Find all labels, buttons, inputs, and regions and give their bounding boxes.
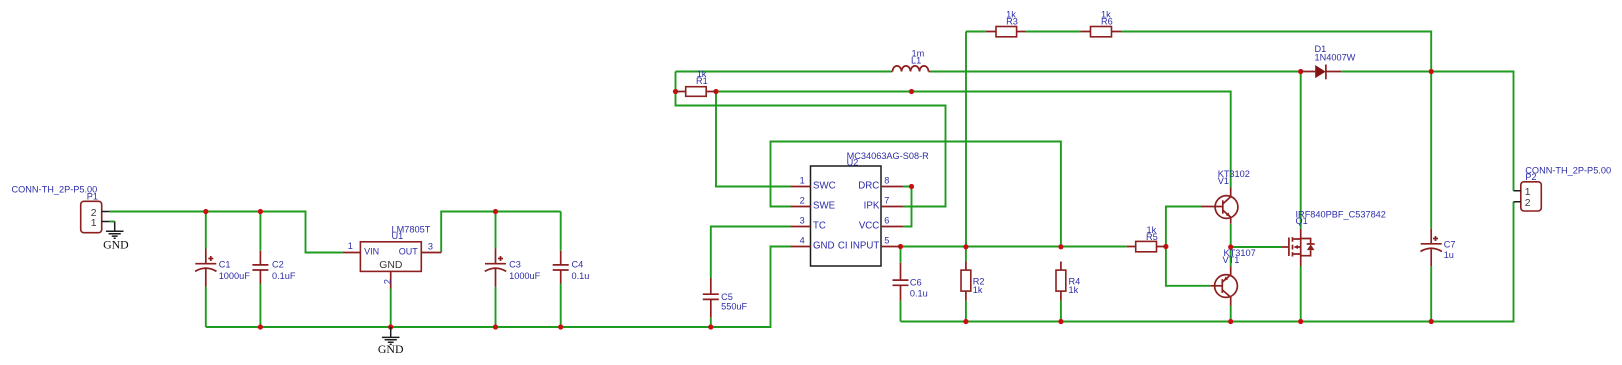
svg-text:P2: P2 (1525, 172, 1536, 182)
capacitor C3 (485, 249, 541, 287)
svg-text:VIN: VIN (364, 247, 379, 257)
svg-text:MC34063AG-S08-R: MC34063AG-S08-R (847, 151, 930, 161)
svg-text:VCC: VCC (859, 221, 879, 232)
svg-text:SWE: SWE (813, 201, 836, 212)
node C5 bottom (708, 324, 713, 329)
wire Q1 source down (1300, 266, 1302, 322)
svg-text:GND: GND (813, 241, 835, 252)
wire R4 bottom (1060, 301, 1062, 322)
wire R3 to R6 (1026, 31, 1081, 33)
node C3 top (493, 209, 498, 214)
svg-text:L1: L1 (911, 56, 921, 66)
node DRC pin (909, 184, 914, 189)
svg-text:3: 3 (800, 216, 805, 226)
svg-text:C3: C3 (509, 260, 521, 270)
svg-text:CONN-TH_2P-P5.00: CONN-TH_2P-P5.00 (1525, 166, 1611, 176)
wire C5 bottom (710, 318, 712, 327)
svg-text:4: 4 (800, 236, 805, 246)
wire C2 bottom drop (259, 284, 261, 328)
svg-text:0.1uF: 0.1uF (272, 271, 296, 281)
resistor R1 (676, 69, 717, 96)
svg-text:R1: R1 (696, 76, 708, 86)
capacitor C6 (893, 263, 928, 301)
resistor R2 (961, 262, 985, 301)
node C2 top (258, 209, 263, 214)
wire SWE loop to R4 (771, 142, 1061, 248)
svg-text:1: 1 (91, 218, 97, 229)
node C7 bottom (1429, 319, 1434, 324)
wire C1 top drop (205, 212, 207, 249)
wire C4 bottom drop (560, 284, 562, 328)
capacitor C7 (1421, 229, 1456, 267)
regulator U1 (343, 224, 441, 288)
ground symbol P1 (103, 222, 129, 252)
node D1 anode (1298, 69, 1303, 74)
wire DRC VCC link (903, 187, 912, 227)
svg-text:1k: 1k (973, 285, 983, 295)
svg-text:IRF840PBF_C537842: IRF840PBF_C537842 (1296, 210, 1386, 220)
node C4 bottom (558, 324, 563, 329)
svg-text:R5: R5 (1146, 232, 1158, 242)
svg-text:U1: U1 (392, 231, 404, 241)
svg-text:Q1: Q1 (1296, 216, 1308, 226)
wire L1 to D1 (930, 71, 1300, 73)
svg-text:DRC: DRC (858, 181, 879, 192)
wire PNP collector down (1230, 306, 1232, 322)
svg-text:IPK: IPK (864, 201, 880, 212)
wire CI INPUT row (901, 246, 1127, 248)
svg-text:V1: V1 (1218, 176, 1229, 186)
wire C4 top drop (560, 212, 562, 251)
svg-text:CI INPUT: CI INPUT (838, 241, 880, 252)
capacitor C2 (252, 251, 295, 284)
svg-text:OUT: OUT (399, 247, 419, 257)
svg-text:1: 1 (800, 176, 805, 186)
svg-text:0.1u: 0.1u (910, 289, 928, 299)
wire D1 to P2 pin1 (1341, 72, 1513, 191)
svg-text:5: 5 (884, 236, 889, 246)
svg-text:VT1: VT1 (1223, 255, 1240, 265)
svg-text:1000uF: 1000uF (219, 271, 251, 281)
svg-text:1k: 1k (1069, 285, 1079, 295)
node R4 top (1058, 244, 1063, 249)
wire P1 pin1 to ground (110, 221, 115, 223)
svg-text:P1: P1 (87, 191, 98, 201)
wire C7 bottom (1430, 266, 1432, 321)
node CI INPUT pin (898, 244, 903, 249)
svg-text:C4: C4 (572, 260, 584, 270)
svg-text:TC: TC (813, 221, 826, 232)
node U1 ground (388, 324, 393, 329)
connector P2 (1514, 166, 1612, 212)
svg-text:0.1u: 0.1u (572, 271, 590, 281)
svg-text:CONN-TH_2P-P5.00: CONN-TH_2P-P5.00 (12, 185, 98, 195)
wire R2 top (965, 247, 967, 262)
resistor R5 (1127, 225, 1166, 252)
node R1 left (673, 89, 678, 94)
wire R2 bottom (965, 301, 967, 322)
svg-text:U2: U2 (847, 158, 859, 168)
wire C3 top drop (495, 212, 497, 249)
wire U1 OUT riser to C3 C4 (441, 212, 561, 253)
IC U2 MC34063 (791, 151, 930, 266)
resistor R3 (986, 10, 1026, 37)
wire R5 to PNP base (1166, 247, 1210, 286)
svg-text:2: 2 (383, 279, 393, 284)
wire U1 pin2 down (390, 289, 392, 328)
svg-text:2: 2 (1525, 198, 1531, 209)
node R4 bottom (1058, 319, 1063, 324)
resistor R4 (1056, 262, 1080, 301)
wire C6 top (900, 247, 902, 263)
wire C2 top drop (259, 212, 261, 251)
transistor V1 KT3102 (1201, 169, 1250, 224)
svg-text:550uF: 550uF (721, 302, 747, 312)
svg-text:1: 1 (348, 241, 353, 251)
svg-text:1: 1 (1525, 187, 1531, 198)
wire C7 top (1430, 72, 1432, 229)
wire emitter junction (1230, 224, 1232, 267)
capacitor C5 (703, 278, 748, 318)
svg-text:1000uF: 1000uF (509, 271, 541, 281)
node C3 bottom (493, 324, 498, 329)
svg-text:SWC: SWC (813, 181, 836, 192)
wire feedback vertical x965 (965, 32, 967, 248)
wire C1 bottom drop (205, 287, 207, 327)
transistor VT1 KT3107 (1210, 248, 1255, 306)
ground symbol U1 (378, 327, 404, 356)
svg-text:C1: C1 (219, 260, 231, 270)
node C1 top (203, 209, 208, 214)
wire R5 to NPN base (1166, 207, 1201, 247)
mosfet Q1 IRF840PBF (1281, 210, 1386, 267)
wire right ground rail to P2 pin2 (901, 202, 1514, 322)
svg-text:1N4007W: 1N4007W (1315, 53, 1356, 63)
inductor L1 (891, 48, 931, 71)
svg-text:6: 6 (884, 216, 889, 226)
svg-text:1u: 1u (1444, 250, 1454, 260)
node Q1 source rail (1298, 319, 1303, 324)
node R5 right (1163, 244, 1168, 249)
svg-text:8: 8 (884, 176, 889, 186)
node R2 top (963, 244, 968, 249)
wire left ground rail to U2 pin4 (206, 247, 791, 328)
svg-text:C6: C6 (910, 278, 922, 288)
wire C6 bottom (900, 301, 902, 322)
connector P1 (12, 185, 110, 233)
svg-text:R6: R6 (1101, 17, 1113, 27)
wire P1 pin2 to VIN (110, 212, 343, 253)
capacitor C4 (553, 251, 590, 284)
wire Q1 drain up (1300, 72, 1302, 230)
wire SWC riser (716, 92, 791, 187)
wire R1 line to NPN collector (716, 92, 1231, 188)
wire R6 to C7 corner (1122, 32, 1432, 72)
wire R1 left to IPK (676, 72, 946, 207)
node emitter junction (1228, 244, 1233, 249)
capacitor C1 (195, 249, 250, 287)
resistor R6 (1081, 10, 1122, 37)
svg-text:7: 7 (884, 196, 889, 206)
node R2 bottom (963, 319, 968, 324)
diode D1 (1301, 44, 1356, 80)
node R1 line DRC branch (909, 89, 914, 94)
node D1 cathode (1429, 69, 1434, 74)
svg-text:GND: GND (378, 342, 404, 356)
node C2 bottom (258, 324, 263, 329)
svg-text:C2: C2 (272, 260, 284, 270)
wire C5 top to TC (711, 227, 791, 279)
wire C3 bottom drop (495, 287, 497, 327)
svg-text:R3: R3 (1006, 17, 1018, 27)
svg-text:GND: GND (379, 260, 402, 271)
svg-text:2: 2 (800, 196, 805, 206)
wire R3 left corner (966, 31, 986, 33)
wire top line to L1 (676, 71, 891, 73)
node PNP collector rail (1228, 319, 1233, 324)
svg-text:GND: GND (103, 238, 129, 252)
wire gate link (1231, 246, 1281, 248)
node R1 right (713, 89, 718, 94)
svg-text:C7: C7 (1444, 240, 1456, 250)
svg-text:3: 3 (428, 241, 433, 251)
